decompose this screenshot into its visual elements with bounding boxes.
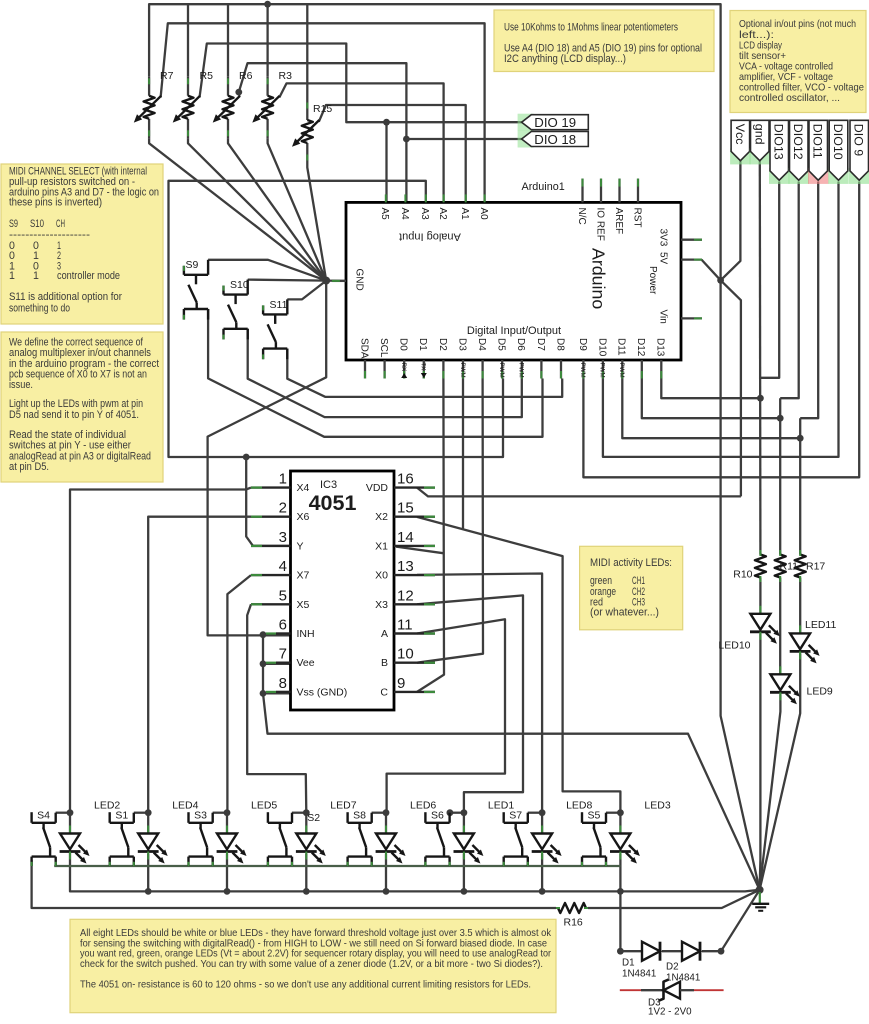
switch S9 (183, 266, 185, 275)
resistor R5 (potentiometer) (187, 76, 189, 96)
switch S1 (108, 812, 110, 823)
wire: 4051 pin12 X3 to LED unit 6 (417, 595, 523, 812)
wire: pin7 Vee link (263, 663, 292, 665)
svg-text:S7: S7 (509, 810, 522, 822)
svg-text:A2: A2 (437, 208, 448, 221)
net flag DIO19 (518, 114, 534, 131)
LED LED7 (305, 826, 307, 834)
wire: switch chain bus (54, 865, 620, 867)
svg-text:16: 16 (397, 471, 414, 488)
pin N/C (581, 179, 583, 203)
node: junction to 4051 pin Y (243, 454, 250, 461)
svg-text:RST: RST (631, 208, 642, 228)
pin D5 (501, 360, 503, 379)
wire: 5V pin diagonal to rail junction (702, 260, 721, 281)
wire: LED column segment x=148.2 (147, 854, 149, 892)
wire: 4051 pin13 X0 to LED unit 7 (417, 574, 542, 813)
node: unit 8 top junction (617, 809, 624, 816)
svg-text:check for the switch pushed. Y: check for the switch pushed. You can try… (80, 959, 543, 970)
wire: R17 column through LED11 to star (799, 418, 801, 550)
wire: LED column segment x=306.3 (305, 854, 307, 892)
svg-text:13: 13 (397, 558, 414, 575)
svg-text:7: 7 (279, 646, 287, 663)
wire: unit 1 anode column (69, 813, 71, 834)
arduino U1 (Arduino1) (346, 202, 681, 360)
svg-text:6: 6 (279, 617, 287, 634)
svg-text:INH: INH (297, 628, 315, 640)
wire: R5 bottom to GND star (188, 138, 326, 280)
svg-text:8: 8 (279, 675, 287, 692)
wire: 4051 pin15 X2 to LED unit 8 (417, 517, 620, 813)
wire: unit 3 anode column (226, 813, 228, 834)
svg-text:Power: Power (647, 266, 658, 295)
svg-text:I2C anything (LCD display...): I2C anything (LCD display...) (504, 53, 626, 65)
node: cathode bus junction (461, 888, 468, 895)
pin SCL (383, 360, 385, 379)
svg-text:PWM: PWM (599, 363, 606, 378)
pin 7 Vee (276, 662, 291, 664)
svg-text:1: 1 (33, 270, 39, 282)
node: ground star bottom (756, 886, 764, 894)
pin Vin (681, 317, 702, 319)
wire: unit 7 anode column (541, 813, 543, 834)
wire: R6 bottom to GND star (228, 138, 326, 280)
svg-text:S1: S1 (115, 810, 128, 822)
svg-text:N/C: N/C (576, 208, 587, 225)
svg-text:Vss (GND): Vss (GND) (297, 686, 348, 698)
net flag DIO18 (518, 131, 534, 148)
pin 14 X1 (394, 545, 435, 547)
switch S11 (262, 305, 264, 314)
svg-text:4051: 4051 (309, 491, 357, 515)
pin 3V3 (681, 239, 702, 241)
svg-text:DIO 19: DIO 19 (534, 115, 576, 130)
pin D0 (403, 360, 405, 379)
node: extra junction at S6 (447, 809, 454, 816)
node: diode line right junction (718, 948, 725, 955)
node: Vee junction (260, 660, 267, 667)
switch S2 (267, 812, 269, 823)
pin 2 X6 (251, 516, 291, 518)
svg-text:DIO10: DIO10 (831, 124, 845, 160)
pin AREF (618, 179, 620, 203)
node: unit 5 top junction (383, 809, 390, 816)
svg-text:controller mode: controller mode (57, 270, 120, 282)
net flag gnd (750, 148, 771, 164)
diode D3 (zener) (620, 989, 641, 991)
svg-text:D3: D3 (456, 338, 467, 351)
pin D6 (521, 360, 523, 379)
wire: 4051 pin5 X5 to LED unit 4 (247, 604, 306, 812)
svg-text:DIO 18: DIO 18 (534, 132, 576, 147)
svg-text:IC3: IC3 (320, 479, 337, 491)
wire: DIO12 flag jog (780, 182, 799, 399)
pin 16 VDD (394, 486, 435, 488)
svg-text:1: 1 (9, 270, 15, 282)
LED LED9 (779, 666, 781, 674)
svg-text:GND: GND (353, 269, 364, 291)
svg-text:at pin D5.: at pin D5. (9, 461, 49, 473)
pin D2 (442, 360, 444, 379)
svg-text:VCA - voltage controlled: VCA - voltage controlled (739, 61, 833, 72)
svg-text:A1: A1 (459, 208, 470, 221)
svg-text:these pins is inverted): these pins is inverted) (9, 196, 102, 208)
svg-text:9: 9 (397, 675, 405, 692)
svg-text:10: 10 (397, 646, 414, 663)
svg-text:R3: R3 (279, 70, 293, 82)
svg-text:Digital Input/Output: Digital Input/Output (467, 325, 561, 337)
svg-text:3V3: 3V3 (657, 229, 668, 247)
pin 13 X0 (394, 574, 435, 576)
pin 15 X2 (394, 516, 435, 518)
svg-text:Arduino1: Arduino1 (522, 181, 565, 193)
wire: 5V top rail from R7 down right side to ground star (149, 4, 760, 890)
svg-text:S11 is additional option for: S11 is additional option for (9, 291, 122, 303)
svg-text:controlled oscillator, ...: controlled oscillator, ... (739, 93, 840, 104)
switch S8 (346, 812, 348, 823)
note: LED note bottom (70, 919, 556, 1012)
wire: LED column segment x=620.4 (619, 854, 621, 892)
svg-text:15: 15 (397, 500, 414, 517)
pin 8 Vss (GND) (276, 691, 291, 693)
pin D8 (560, 360, 562, 379)
svg-text:X6: X6 (297, 511, 310, 523)
svg-text:MIDI activity LEDs:: MIDI activity LEDs: (590, 557, 672, 569)
svg-text:--------------------: -------------------- (9, 229, 91, 241)
node: unit 7 top junction (539, 809, 546, 816)
wire: pin8 Vss link (263, 692, 292, 694)
wire: unit 5 anode column (385, 813, 387, 834)
svg-text:D4: D4 (476, 338, 487, 351)
wire: 4051 pin4 X7 to LED unit 3 (227, 575, 251, 813)
svg-text:A: A (381, 628, 388, 640)
svg-text:X5: X5 (297, 599, 310, 611)
pin D7 (540, 360, 542, 379)
wire: R9 column (middle) through LED9 to star (779, 398, 781, 550)
svg-text:D0: D0 (398, 338, 409, 351)
wire: R3 bottom to GND star (268, 138, 327, 280)
svg-text:X3: X3 (375, 599, 388, 611)
svg-text:Analog Input: Analog Input (399, 231, 461, 243)
wire: switch S8 top link (372, 812, 386, 814)
svg-text:S8: S8 (353, 810, 366, 822)
note: multiplexer sequence note (1, 332, 163, 482)
wire: 4051 VDD to Vcc (417, 488, 741, 497)
resistor R7 (potentiometer) (148, 76, 150, 96)
svg-text:11: 11 (397, 617, 413, 634)
svg-text:S5: S5 (588, 810, 601, 822)
wire: S11 top to star (287, 281, 326, 300)
pin D12 (641, 360, 643, 379)
node: cathode bus junction (303, 888, 310, 895)
node: D12 junction (777, 415, 784, 422)
svg-text:5V: 5V (657, 252, 668, 265)
wire: D2 column to 4051 pin9 C (417, 379, 444, 692)
LED LED10 (759, 606, 761, 614)
pin 4 X7 (251, 574, 291, 576)
svg-text:S3: S3 (194, 810, 207, 822)
node: A5 junction on DIO19 line (383, 119, 390, 126)
wire: R3 wiper to A2 (279, 83, 443, 202)
svg-text:D1: D1 (417, 338, 428, 351)
svg-text:LED9: LED9 (807, 686, 833, 698)
note: use potentiometers (494, 10, 714, 72)
pin 6 INH (276, 632, 291, 634)
wire: DIO11 flag jog (800, 182, 818, 419)
svg-text:D11: D11 (616, 338, 627, 356)
svg-text:Vcc: Vcc (733, 124, 747, 145)
node: junction on R6 wiper (235, 89, 242, 96)
wire: LED column segment x=463.9 (463, 854, 465, 892)
svg-text:D2: D2 (437, 338, 448, 351)
svg-text:The 4051 on- resistance is 60: The 4051 on- resistance is 60 to 120 ohm… (80, 979, 531, 990)
svg-text:RX: RX (400, 363, 407, 372)
wire: R7 wiper to Arduino A0 (161, 23, 485, 202)
svg-text:A4: A4 (399, 208, 410, 221)
svg-text:A0: A0 (478, 208, 489, 221)
svg-text:1: 1 (279, 471, 287, 488)
wire: R15 bottom to GND star (307, 163, 326, 281)
svg-text:AREF: AREF (613, 208, 624, 235)
wire: R6 wiper to A4 column (239, 63, 407, 202)
svg-text:Vin: Vin (657, 310, 668, 324)
switch S7 (503, 812, 505, 823)
svg-text:Y: Y (297, 540, 304, 552)
wire: switch S6 top link (450, 812, 464, 814)
wire: D12 to DIO12 net (642, 379, 780, 419)
wire: LED column segment x=227 (226, 854, 228, 892)
resistor R11 (779, 550, 781, 555)
node: rail junction at R3 riser (264, 1, 271, 8)
svg-text:D7: D7 (535, 338, 546, 351)
pin 11 A (394, 632, 435, 634)
wire: DIO18 line (406, 138, 521, 140)
svg-text:5: 5 (279, 587, 287, 604)
pin A1 (465, 194, 467, 202)
LED LED8 (541, 826, 543, 834)
wire: D3 column (462, 379, 464, 530)
node: diode line left junction (617, 948, 624, 955)
wire: R6 top riser (227, 4, 229, 76)
LED LED6 (385, 826, 387, 834)
svg-text:R10: R10 (733, 569, 752, 581)
svg-text:X2: X2 (375, 511, 388, 523)
switch S5 (581, 812, 583, 823)
wire: switch S1 top link (134, 812, 148, 814)
svg-text:controlled filter, VCO - volta: controlled filter, VCO - voltage (739, 83, 864, 94)
svg-text:tilt sensor+: tilt sensor+ (739, 51, 786, 62)
svg-text:TX: TX (420, 363, 427, 371)
pin A3 (425, 194, 427, 202)
wire: Arduino GND pin to star (326, 279, 346, 282)
svg-text:12: 12 (397, 587, 414, 604)
net flag DIO10 (828, 168, 849, 184)
pin D13 (660, 360, 662, 379)
diode D1 (642, 942, 660, 961)
node: D11 junction (797, 435, 804, 442)
svg-text:Arduino: Arduino (589, 248, 609, 309)
LED LED2 (69, 826, 71, 834)
svg-text:CH3: CH3 (632, 597, 645, 609)
net flag DIO11 (808, 168, 829, 184)
wire: LED column segment x=542.1 (541, 854, 543, 892)
wire: Y riser to 4051 pin 3 (246, 457, 292, 546)
node: 5V/Vcc junction (717, 277, 724, 284)
node: cathode bus junction (145, 888, 152, 895)
pin 5 X5 (251, 603, 291, 605)
svg-text:3: 3 (279, 529, 287, 546)
wire: D10 to DIO10 flag (603, 182, 839, 457)
wire: unit 6 anode column (463, 813, 465, 834)
pin A4 (404, 194, 406, 202)
svg-text:D9: D9 (577, 338, 588, 351)
node: unit 3 top junction (224, 809, 231, 816)
wire: switch S5 top link (606, 812, 620, 814)
wire: unit 8 anode column (619, 813, 621, 834)
svg-text:Vee: Vee (297, 657, 315, 669)
svg-text:D2: D2 (666, 962, 679, 973)
wire: LED cathode bus to star (70, 852, 760, 892)
svg-text:PWM: PWM (618, 363, 625, 378)
node: unit 4 top junction (303, 809, 310, 816)
svg-text:IO REF: IO REF (594, 208, 605, 241)
svg-text:LCD display: LCD display (739, 40, 783, 51)
wire: R5 wiper to DIO19/A5 net (200, 44, 522, 123)
wire: D13 to DIO13 net (661, 379, 760, 399)
resistor R17 (799, 550, 801, 555)
wire: DIO13 flag jog (760, 182, 779, 378)
svg-text:SCL: SCL (378, 338, 389, 358)
svg-text:A5: A5 (379, 208, 390, 221)
svg-text:R7: R7 (160, 70, 174, 82)
node: INH junction (260, 631, 267, 638)
pin 9 C (394, 691, 435, 693)
wire: S10 top to star (248, 280, 327, 281)
wire: D11 to DIO11 net (622, 379, 800, 439)
svg-text:S9: S9 (186, 259, 199, 271)
svg-text:left...):: left...): (739, 30, 774, 41)
wire: 4051 pin14 X1 stub wire (396, 547, 444, 554)
svg-text:PWM: PWM (459, 363, 466, 378)
wire: R7 bottom to GND star (149, 138, 326, 280)
resistor R3 (potentiometer) (266, 76, 268, 96)
LED LED5 (226, 826, 228, 834)
svg-text:LED3: LED3 (644, 800, 670, 812)
wire: R5 top riser (187, 4, 189, 76)
wire: R15 wiper to A1 (319, 105, 466, 202)
net flag DIO9 (849, 168, 869, 184)
switch S3 (187, 812, 189, 823)
svg-text:gnd: gnd (752, 124, 766, 145)
svg-text:R15: R15 (313, 103, 332, 115)
wire: switch S3 top link (213, 812, 227, 814)
svg-text:1N4841: 1N4841 (666, 973, 700, 984)
LED LED4 (147, 826, 149, 834)
svg-text:B: B (381, 657, 388, 669)
ground symbol (759, 892, 761, 904)
resistor R15 (potentiometer) (306, 101, 308, 121)
node: cathode bus junction (224, 888, 231, 895)
node: Vss junction (260, 690, 267, 697)
net flag DIO12 (789, 168, 810, 184)
svg-text:LED10: LED10 (718, 640, 750, 652)
pin 1 X4 (251, 486, 291, 488)
node: unit 1 top junction (67, 809, 74, 816)
svg-text:D10: D10 (596, 338, 607, 357)
svg-text:X0: X0 (375, 570, 388, 582)
svg-text:A3: A3 (419, 208, 430, 221)
pin 10 B (394, 662, 435, 664)
wire: LED column segment x=386 (385, 854, 387, 892)
net flag DIO13 (769, 168, 790, 184)
note: MIDI activity LEDs (580, 546, 683, 630)
pin A5 (385, 194, 387, 202)
LED LED1 (463, 826, 465, 834)
svg-text:D8: D8 (554, 338, 565, 351)
svg-text:PWM: PWM (498, 363, 505, 378)
wire: 4051 pin1 X4 to LED unit 1 (70, 488, 251, 813)
svg-text:D1: D1 (622, 958, 635, 969)
svg-text:S4: S4 (37, 810, 50, 822)
switch S10 (222, 286, 224, 295)
svg-text:S6: S6 (431, 810, 444, 822)
svg-text:DIO12: DIO12 (791, 124, 805, 160)
wire: D4 column to 4051 pin10 B (417, 379, 483, 663)
wire: left rail through R16 to star (32, 860, 556, 908)
pin IO REF (600, 179, 602, 203)
svg-text:4: 4 (279, 558, 287, 575)
svg-text:D6: D6 (515, 338, 526, 351)
svg-text:DIO11: DIO11 (811, 124, 825, 159)
svg-text:2: 2 (279, 500, 287, 517)
svg-text:D5: D5 (496, 338, 507, 351)
pin GND (332, 280, 346, 282)
switch S4 (30, 812, 32, 823)
node: unit 2 top junction (145, 809, 152, 816)
LED LED11 (799, 625, 801, 633)
wire: R3 top riser (266, 4, 268, 76)
pin 12 X3 (394, 603, 435, 605)
wire: switch S7 top link (528, 812, 542, 814)
svg-text:D13: D13 (655, 338, 666, 357)
diode D2 (682, 942, 700, 961)
wire: S9 top to star (208, 260, 326, 281)
svg-text:PWM: PWM (518, 363, 525, 378)
svg-text:amplifier, VCF - voltage: amplifier, VCF - voltage (739, 72, 833, 83)
node: cathode bus junction (617, 888, 624, 895)
wire: switch S2 top link (292, 812, 306, 814)
svg-text:Use 10Kohms to 1Mohms linear p: Use 10Kohms to 1Mohms linear potentiomet… (504, 22, 678, 34)
pin SDA (364, 360, 366, 379)
svg-text:C: C (380, 686, 388, 698)
multiplexer IC3 4051 (291, 471, 395, 710)
svg-text:R17: R17 (806, 561, 825, 573)
svg-text:S11: S11 (270, 299, 288, 311)
pin 3 Y (251, 545, 291, 547)
svg-text:LED5: LED5 (251, 800, 277, 812)
wire: Vcc flag to junction and down to 4051 VDD line (721, 161, 741, 497)
wire: D9 to DIO9 flag (583, 182, 859, 478)
wire: S9 bottom to D7 (208, 309, 542, 437)
note: optional in/out pins (730, 11, 866, 113)
pin D3 (462, 360, 464, 379)
svg-text:D12: D12 (635, 338, 646, 357)
pin D9 (582, 360, 584, 379)
resistor R10 (759, 550, 761, 555)
pin RST (637, 179, 639, 203)
svg-text:(or whatever...): (or whatever...) (590, 607, 659, 619)
node: GND star junction (322, 277, 330, 285)
